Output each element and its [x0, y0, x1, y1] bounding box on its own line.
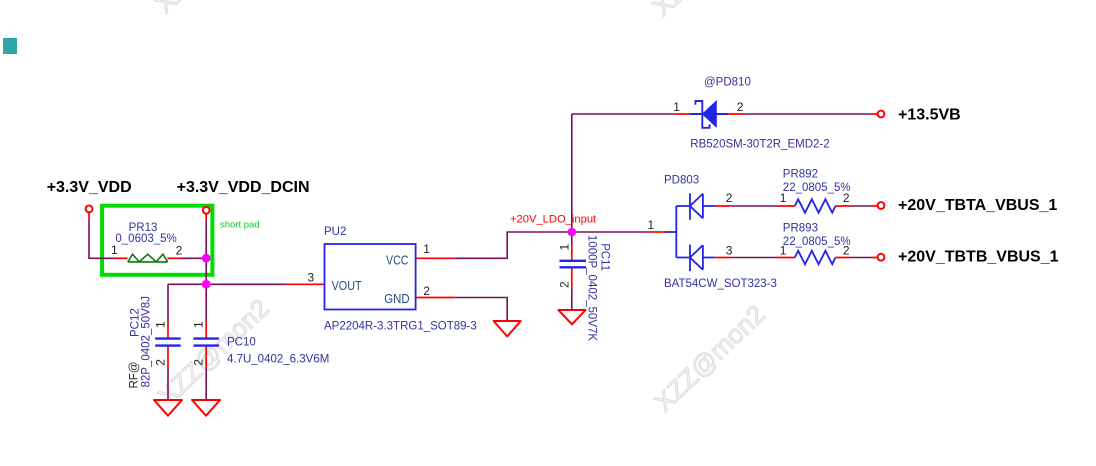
- pin stub PR13.1: [114, 257, 127, 259]
- wire: PU2 VCC pin to +20V_LDO_input node: [454, 232, 572, 258]
- svg-text:22_0805_5%: 22_0805_5%: [783, 182, 851, 194]
- ground symbol under PC11: [558, 310, 585, 324]
- wire: PC11 column: [571, 236, 573, 310]
- svg-text:2: 2: [423, 284, 430, 298]
- red pin stubs: [89, 114, 877, 369]
- svg-text:0_0603_5%: 0_0603_5%: [115, 233, 176, 245]
- svg-text:2: 2: [176, 244, 183, 258]
- svg-text:1000P_0402_50V7K: 1000P_0402_50V7K: [586, 235, 598, 341]
- svg-text:BAT54CW_SOT323-3: BAT54CW_SOT323-3: [664, 278, 777, 290]
- port circle +20V_TBTB_VBUS_1: [878, 254, 885, 261]
- svg-text:4.7U_0402_6.3V6M: 4.7U_0402_6.3V6M: [227, 353, 329, 365]
- resistor PR892 body: [795, 199, 836, 212]
- svg-text:+3.3V_VDD_DCIN: +3.3V_VDD_DCIN: [177, 179, 310, 196]
- svg-text:2: 2: [843, 244, 850, 258]
- wire: +13.5VB net to PD810 and to port: [572, 113, 872, 115]
- svg-text:+20V_TBTA_VBUS_1: +20V_TBTA_VBUS_1: [898, 197, 1057, 214]
- svg-text:+20V_LDO_input: +20V_LDO_input: [510, 213, 597, 225]
- IC PU2 body: [325, 244, 416, 310]
- pin stub PD803.1: [650, 231, 666, 233]
- wire: PR13 pin 2 to node column: [181, 257, 206, 259]
- top diode: [690, 193, 715, 220]
- svg-text:RF@: RF@: [129, 361, 141, 388]
- svg-text:VOUT: VOUT: [332, 278, 362, 293]
- svg-text:2: 2: [558, 281, 572, 288]
- svg-text:+3.3V_VDD: +3.3V_VDD: [47, 179, 132, 196]
- common lead and rail: [666, 206, 691, 258]
- pin stub PU2.2 GND: [416, 297, 456, 299]
- pin stubs PD803.2 PD803.3: [715, 206, 730, 258]
- svg-text:PD803: PD803: [664, 175, 699, 187]
- wire: +20V_LDO_input vertical riser: [571, 114, 573, 232]
- port circle +20V_TBTA_VBUS_1: [878, 202, 885, 209]
- svg-text:PC11: PC11: [599, 243, 611, 271]
- svg-text:+13.5VB: +13.5VB: [898, 107, 961, 124]
- svg-text:1: 1: [648, 218, 655, 232]
- junction node +20V_LDO_input: [568, 228, 577, 237]
- pin stub under port +3.3V_VDD_DCIN: [205, 213, 207, 219]
- svg-text:1: 1: [153, 321, 167, 328]
- pin stubs PC12: [167, 322, 169, 369]
- wire: VOUT net horizontal: [168, 283, 285, 285]
- junction node +3.3V_VDD_DCIN / PR13.2: [202, 254, 211, 263]
- svg-text:2: 2: [192, 359, 206, 366]
- svg-text:1: 1: [111, 243, 118, 257]
- svg-text:1: 1: [673, 100, 680, 114]
- svg-text:1: 1: [192, 321, 206, 328]
- svg-text:+20V_TBTB_VBUS_1: +20V_TBTB_VBUS_1: [898, 248, 1059, 265]
- svg-text:1: 1: [558, 244, 572, 251]
- wire: node column from port +3.3V_VDD_DCIN down through junctions: [205, 220, 207, 285]
- svg-text:3: 3: [308, 271, 315, 285]
- svg-text:1: 1: [780, 244, 787, 258]
- svg-text:2: 2: [153, 359, 167, 366]
- pin stub PU2.3 VOUT: [285, 283, 324, 285]
- svg-text:VCC: VCC: [386, 252, 409, 267]
- svg-text:2: 2: [843, 191, 850, 205]
- short pad highlight box: [102, 206, 212, 275]
- capacitor PC10 plates: [193, 339, 219, 346]
- svg-text:PC10: PC10: [227, 336, 256, 348]
- svg-text:22_0805_5%: 22_0805_5%: [783, 236, 851, 248]
- decorative watermarks: [149, 0, 771, 417]
- pin stub under port +3.3V_VDD: [88, 213, 90, 220]
- bottom diode: [690, 245, 715, 272]
- wire: PD803 pin2 to PR892: [730, 205, 872, 207]
- ground symbol under PC12: [154, 400, 182, 416]
- dual diode PD803: [666, 193, 716, 271]
- pin stubs PC11: [571, 245, 573, 290]
- port circle +3.3V_VDD: [86, 206, 93, 213]
- wire: PU2 GND pin to ground: [455, 298, 507, 322]
- ground symbol under PC10: [192, 400, 220, 416]
- diode PD810 (schottky): [690, 101, 728, 128]
- ground symbol under PU2 GND: [494, 321, 521, 337]
- capacitor PC11 plates: [560, 261, 587, 268]
- svg-text:1: 1: [423, 242, 430, 256]
- pin stubs PD810: [675, 113, 877, 115]
- svg-text:@PD810: @PD810: [704, 77, 751, 89]
- svg-text:short pad: short pad: [220, 220, 260, 231]
- junction node VOUT: [202, 280, 211, 289]
- teal marker square top-left: [3, 38, 17, 54]
- wire: +20V_LDO_input node to PD803 pin 1: [572, 231, 650, 233]
- svg-text:1: 1: [780, 191, 787, 205]
- pin stub PR13.2: [167, 257, 181, 259]
- svg-text:82P_0402_50V8J: 82P_0402_50V8J: [141, 296, 153, 387]
- wire: port +3.3V_VDD down and right to PR13 pin 1: [89, 219, 114, 258]
- resistor PR893 body: [795, 251, 836, 264]
- svg-text:PR892: PR892: [783, 168, 818, 180]
- svg-text:GND: GND: [384, 291, 409, 306]
- svg-text:RB520SM-30T2R_EMD2-2: RB520SM-30T2R_EMD2-2: [690, 139, 829, 151]
- wire: PD803 pin3 to PR893: [730, 257, 872, 259]
- svg-text:AP2204R-3.3TRG1_SOT89-3: AP2204R-3.3TRG1_SOT89-3: [324, 321, 477, 333]
- svg-text:PR13: PR13: [129, 222, 158, 234]
- svg-text:3: 3: [726, 244, 733, 258]
- svg-text:PR893: PR893: [783, 222, 818, 234]
- wire: branch down to PC12: [167, 284, 169, 400]
- svg-text:2: 2: [737, 100, 744, 114]
- port circle +13.5VB: [878, 111, 885, 118]
- port circle +3.3V_VDD_DCIN: [203, 207, 210, 214]
- pin stubs PC10: [205, 322, 207, 369]
- wire: branch down to PC10: [205, 284, 207, 400]
- capacitor PC12 plates: [155, 339, 181, 346]
- pin stubs PR892: [778, 205, 878, 207]
- svg-text:PU2: PU2: [324, 226, 346, 238]
- pin stubs PR893: [778, 257, 878, 259]
- resistor PR13 body: [128, 254, 168, 262]
- svg-text:2: 2: [726, 191, 733, 205]
- pin stub PU2.1 VCC: [416, 257, 455, 259]
- wires (dark magenta): [89, 114, 872, 400]
